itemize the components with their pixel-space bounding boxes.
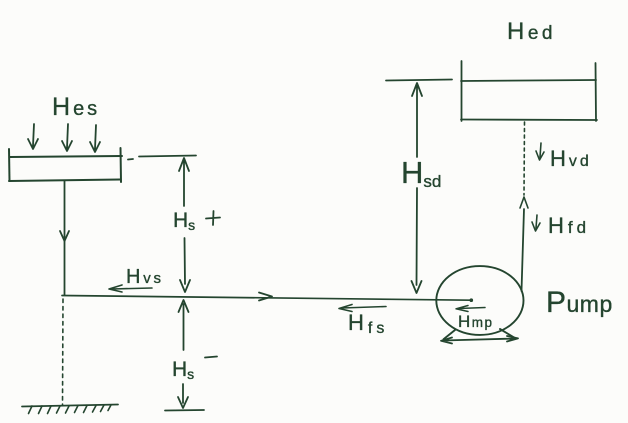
plus sign of Hs+	[206, 211, 220, 225]
pump casing circle	[436, 266, 523, 335]
Hs+ lower arrow	[180, 238, 190, 292]
ground line	[22, 405, 118, 407]
svg-text:Hfs: Hfs	[348, 310, 388, 337]
pump base line with arrowheads	[441, 336, 518, 344]
ground hatching	[29, 405, 112, 414]
svg-text:Hvd: Hvd	[550, 146, 592, 171]
discharge pipe solid part	[522, 209, 525, 291]
svg-text:Hfd: Hfd	[548, 213, 590, 238]
discharge pipe dashed part	[523, 122, 526, 195]
pump base left leg	[444, 330, 456, 339]
discharge tank water line	[461, 80, 596, 81]
water level tick line	[139, 156, 196, 157]
Hs- lower arrow	[178, 384, 188, 408]
discharge tank left wall	[461, 61, 463, 121]
Hfs arrow	[339, 305, 386, 312]
svg-text:Hed: Hed	[507, 18, 556, 45]
Hs- upper arrow	[179, 300, 189, 350]
minus sign of Hs-	[205, 357, 217, 358]
suction tank right wall	[120, 148, 123, 182]
Hmp small left arrow	[456, 306, 485, 312]
pump shaft dot	[470, 298, 474, 302]
dashed vertical to ground	[62, 299, 65, 405]
svg-text:Hsd: Hsd	[401, 155, 441, 191]
discharge tank bottom line	[461, 119, 597, 122]
suction tank top line	[10, 156, 122, 157]
suction tank bottom line	[9, 180, 120, 182]
Hsd upper arrow	[412, 83, 422, 157]
Hvs arrow	[109, 285, 152, 292]
Hfd small down arrow	[532, 215, 540, 231]
svg-text:Hmp: Hmp	[458, 312, 494, 331]
discharge pipe arrowhead up	[520, 197, 528, 208]
discharge level tick line	[386, 80, 452, 81]
flow arrowhead on pipe	[259, 293, 272, 301]
Hvd small down arrow	[536, 143, 544, 160]
suction pipe vertical	[64, 181, 66, 295]
discharge tank right wall	[595, 63, 598, 121]
svg-text:Hes: Hes	[52, 93, 100, 121]
svg-text:Hvs: Hvs	[126, 266, 164, 288]
rain arrow 1	[28, 124, 38, 149]
svg-text:Hs: Hs	[173, 209, 195, 233]
pump base right leg	[500, 329, 515, 338]
small dash at water level	[128, 158, 133, 161]
Hs+ upper arrow	[179, 158, 189, 206]
suction tank left wall	[8, 149, 11, 181]
rain arrow 3	[90, 125, 100, 152]
rain arrow 2	[62, 124, 72, 151]
svg-text:Pump: Pump	[546, 286, 613, 319]
svg-text:Hs: Hs	[172, 358, 194, 382]
main suction pipe horizontal	[62, 296, 471, 301]
datum tick line	[165, 409, 204, 412]
suction pipe flow arrowhead	[60, 231, 69, 241]
Hsd lower arrow	[412, 188, 422, 293]
